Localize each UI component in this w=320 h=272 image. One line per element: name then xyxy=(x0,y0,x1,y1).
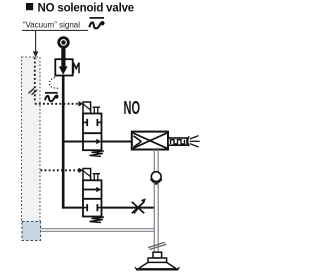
regulator flow arrowhead xyxy=(59,66,68,74)
vacuum symbol V (header) glyph xyxy=(90,22,104,28)
vacuum supply gray double wire xyxy=(41,228,155,230)
solenoid coil SV2 xyxy=(83,169,91,181)
title bullet xyxy=(26,3,33,10)
solenoid coil SV1 xyxy=(83,102,91,114)
pilot dotted wire to valve SV1 xyxy=(35,103,79,105)
SV2 flow path arrow xyxy=(83,189,98,191)
exhaust port SV1 xyxy=(93,106,100,108)
regulator spring xyxy=(73,63,79,74)
ejector body xyxy=(132,132,168,150)
vacuum symbol V (diagram) glyph xyxy=(45,96,57,102)
pilot signal dotted vertical wire xyxy=(34,58,36,103)
valve SV2 body xyxy=(83,180,102,216)
SV2 return spring xyxy=(90,217,105,223)
wire trunk to SV1 xyxy=(62,141,83,143)
SV1 blocked ports xyxy=(83,121,87,123)
silencer xyxy=(168,138,187,145)
signal drop arrowhead xyxy=(33,51,39,57)
svg-text:NO: NO xyxy=(124,98,141,118)
vacuum symbol V (header) overline xyxy=(90,17,105,19)
vacuum pad fitting xyxy=(153,252,162,258)
check valve xyxy=(151,172,161,182)
exhaust port SV2 xyxy=(93,173,100,175)
svg-text:NO solenoid valve: NO solenoid valve xyxy=(38,0,135,14)
valve SV1 body xyxy=(83,114,102,151)
main trunk wire xyxy=(62,76,65,208)
throttle valve xyxy=(132,202,144,213)
vacuum pipe double line (lower) xyxy=(153,183,155,253)
regulator port circle xyxy=(59,38,69,48)
pipe break symbol xyxy=(148,242,165,247)
regulator port dot xyxy=(61,40,65,44)
pilot arrow into SV2 xyxy=(78,168,83,173)
signal drop wire xyxy=(35,31,37,53)
vacuum source blue box xyxy=(22,222,41,241)
svg-text:“Vacuum” signal: “Vacuum” signal xyxy=(23,20,80,29)
vacuum symbol V (diagram) overline xyxy=(45,92,58,94)
vacuum pad cup xyxy=(139,262,148,268)
regulator inlet thick wire xyxy=(61,48,65,68)
SV2 blocked ports xyxy=(83,207,87,209)
wire trunk corner to SV2 xyxy=(62,207,83,209)
vacuum pipe double line (upper) xyxy=(153,150,155,173)
regulator pilot dotted arc xyxy=(49,77,58,88)
exhaust air symbol xyxy=(188,136,190,146)
vacuum zone dashed box xyxy=(22,57,41,222)
subtitle underline xyxy=(22,29,88,31)
pilot arrow into SV1 xyxy=(78,101,83,106)
SV1 flow path arrow xyxy=(83,141,98,143)
ejector inlet chevron xyxy=(134,136,142,142)
pilot dotted wire to valve SV2 xyxy=(41,169,79,171)
wire SV2 to pipe xyxy=(102,207,155,209)
wire SV1 to ejector xyxy=(102,141,132,143)
line break slashes xyxy=(29,88,35,93)
regulator body box xyxy=(55,59,72,75)
SV1 return spring xyxy=(90,151,105,157)
ejector X xyxy=(133,133,167,148)
